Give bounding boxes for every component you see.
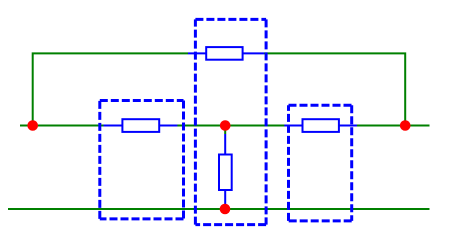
resistor R3 (middle right, horizontal)	[284, 119, 357, 132]
wire: middle rail segment C (R3 to right end)	[357, 125, 430, 127]
node: right junction (red dot)	[400, 120, 411, 131]
resistor R4 (center, vertical)	[219, 134, 232, 209]
selection box around R3 (right dashed rectangle)	[289, 105, 352, 221]
wire: middle rail segment A (left end to R2)	[20, 125, 104, 127]
node: center junction (red dot)	[220, 120, 231, 131]
selection box around R1 and R4 (center tall dashed rectangle)	[195, 19, 266, 224]
wire: bottom rail	[8, 208, 430, 210]
wire: top rail right segment	[264, 53, 405, 125]
wire: center node stub down to R4	[224, 126, 226, 135]
wire: middle rail segment B (R2 to R3)	[177, 125, 285, 127]
node: left junction (red dot)	[27, 120, 38, 131]
wire: top rail left segment	[33, 53, 188, 125]
resistor R2 (middle left, horizontal)	[104, 119, 178, 132]
resistor R1 (top, horizontal)	[188, 47, 264, 60]
node: bottom junction (red dot)	[220, 204, 231, 215]
selection box around R2 (left dashed rectangle)	[100, 101, 184, 219]
